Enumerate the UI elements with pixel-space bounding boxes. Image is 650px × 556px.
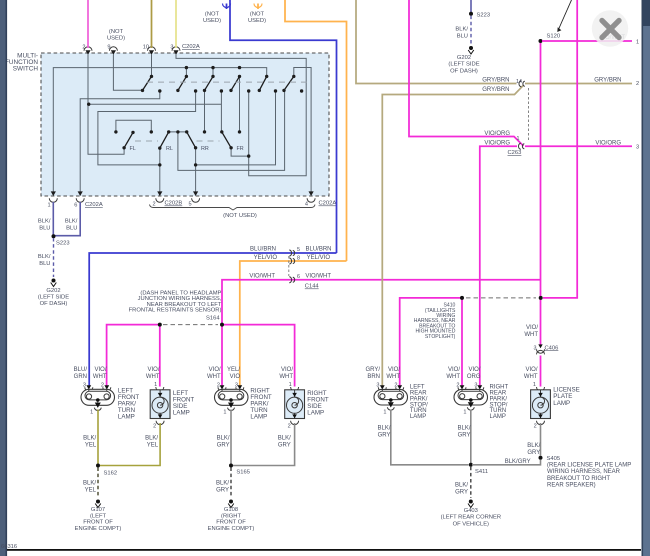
wire GRY/BRN upper [356, 0, 517, 84]
wire BLK/BLU to ground [53, 238, 55, 277]
wire VIO/ORG upper [409, 0, 524, 146]
not-used brace [150, 205, 316, 211]
close button [592, 10, 628, 46]
wire YEL/VIO feed [285, 0, 347, 261]
wire: blade F feed [294, 68, 311, 195]
wire LTYEL (pin 3) [175, 0, 177, 48]
svg-text:VIO/WHT: VIO/WHT [305, 273, 331, 279]
svg-text:C202A: C202A [85, 202, 103, 208]
svg-text:BLK/: BLK/ [278, 436, 291, 442]
wire BLK/GRY right rear [470, 410, 472, 465]
S164 text block [129, 291, 222, 322]
svg-text:(LEFT SIDE: (LEFT SIDE [448, 62, 479, 68]
wire: RL-RR top link [169, 131, 187, 133]
svg-text:BLK/: BLK/ [38, 254, 51, 260]
svg-text:2: 2 [636, 81, 639, 87]
svg-text:1: 1 [90, 409, 93, 415]
wire: pin2 drop [88, 55, 124, 155]
wire VIO/WHT S164 left [107, 325, 160, 387]
wire BLU/BRN left [89, 253, 336, 387]
svg-text:BLU: BLU [457, 34, 468, 40]
wire BLK/GRY license [540, 423, 542, 456]
wire: contact 239 drop [239, 76, 241, 131]
svg-text:REAR SPEAKER): REAR SPEAKER) [547, 483, 596, 489]
top external wires [88, 0, 347, 261]
svg-text:LAMP: LAMP [307, 409, 324, 416]
svg-text:WHT: WHT [386, 374, 400, 380]
svg-text:VIO/: VIO/ [468, 367, 480, 373]
wire: pin6 riser [80, 91, 160, 195]
svg-text:VIO/: VIO/ [526, 325, 538, 331]
svg-text:C202B: C202B [165, 201, 183, 207]
svg-text:VIO/: VIO/ [209, 367, 221, 373]
connector arcs pin 14 [519, 81, 525, 87]
left rear park/stop/turn lamp [374, 383, 428, 421]
svg-text:C202A: C202A [182, 44, 200, 50]
svg-text:ENGINE COMPT): ENGINE COMPT) [75, 526, 122, 532]
ground G107 [96, 500, 100, 504]
svg-text:1: 1 [533, 382, 536, 388]
svg-text:GRY: GRY [458, 432, 471, 438]
wire BLK/GRY side lamp [233, 423, 295, 466]
multi-function switch box [5, 53, 329, 197]
wire VIO/WHT license drop [540, 356, 542, 387]
front lamps [74, 291, 329, 532]
svg-text:1: 1 [636, 40, 639, 46]
wire BLK/BLU pin1 [52, 202, 54, 236]
left BLK/BLU ground column [38, 202, 80, 307]
wire BLK/YEL to G107 [97, 468, 99, 499]
svg-text:BLU/BRN: BLU/BRN [250, 247, 276, 253]
splice S223 [469, 12, 473, 16]
splice S411 [469, 463, 473, 467]
svg-text:GRY/: GRY/ [365, 367, 380, 373]
wire VIO/WHT S410 left [400, 298, 462, 387]
svg-text:BRN: BRN [367, 374, 380, 380]
svg-text:G202: G202 [46, 288, 60, 294]
svg-text:VIO: VIO [230, 374, 241, 380]
wire: RR pin5 drop [195, 148, 197, 195]
connector C406 [538, 344, 542, 348]
wire BLK/GRY to G403 [470, 467, 472, 498]
wire: pin1 bus [53, 68, 266, 195]
splice S164 row [107, 291, 295, 387]
wire VIO/WHT right riser [543, 0, 577, 298]
svg-text:USED): USED) [203, 18, 221, 24]
svg-text:(LEFT: (LEFT [90, 513, 107, 519]
svg-text:9: 9 [107, 45, 110, 51]
svg-text:66316: 66316 [1, 544, 17, 550]
top pin arcs [84, 47, 180, 51]
svg-text:3: 3 [534, 345, 537, 351]
svg-text:GRY/BRN: GRY/BRN [594, 78, 621, 84]
right rear park/stop/turn lamp [454, 383, 509, 421]
left front park/turn lamp [81, 383, 139, 421]
wire VIO/WHT to pin 1 [542, 40, 632, 42]
linkage dashes row2 [135, 140, 158, 142]
svg-text:YEL/VIO: YEL/VIO [307, 255, 331, 261]
svg-text:STOPLIGHT): STOPLIGHT) [425, 334, 456, 340]
svg-text:VIO/ORG: VIO/ORG [595, 140, 621, 146]
splice S120 [539, 39, 543, 43]
splice S410 dashed link [466, 297, 536, 299]
svg-text:VIO/WHT: VIO/WHT [249, 273, 275, 279]
splice S165 [229, 464, 233, 468]
svg-text:BLK/: BLK/ [455, 27, 468, 33]
svg-text:6: 6 [74, 203, 77, 209]
svg-text:WHT: WHT [93, 374, 107, 380]
svg-text:GRY: GRY [216, 487, 229, 493]
svg-text:VIO/ORG: VIO/ORG [484, 131, 510, 137]
wire VIO/WHT S120 drop [540, 43, 542, 345]
svg-text:WHT: WHT [207, 374, 221, 380]
splice S405 [539, 456, 543, 460]
svg-text:C406: C406 [545, 345, 559, 351]
svg-text:2: 2 [534, 424, 537, 430]
svg-text:5: 5 [297, 247, 300, 253]
junction dots row1 [87, 66, 303, 106]
svg-text:S165: S165 [236, 470, 250, 476]
svg-text:G108: G108 [224, 507, 238, 513]
svg-text:GRY: GRY [527, 450, 540, 456]
wire VIO/WHT S410 drop [461, 298, 463, 387]
C144 labels [249, 247, 331, 280]
svg-text:BLU: BLU [66, 226, 77, 232]
svg-text:WIRING HARNESS, NEAR: WIRING HARNESS, NEAR [547, 469, 621, 475]
connector arcs C263 [518, 143, 524, 149]
svg-text:GRY: GRY [378, 432, 391, 438]
svg-text:6: 6 [297, 274, 300, 280]
svg-text:USED): USED) [248, 18, 266, 24]
svg-text:(NOT USED): (NOT USED) [223, 213, 257, 219]
wire VIO/WHT S164 right [222, 323, 295, 387]
svg-text:4: 4 [305, 202, 308, 208]
C144 dashed link [288, 256, 290, 276]
svg-text:S162: S162 [104, 471, 118, 477]
wire GRY/BRN lower [382, 85, 523, 386]
svg-text:WHT: WHT [146, 374, 160, 380]
svg-text:3: 3 [636, 145, 639, 151]
C144 connector arcs [289, 250, 294, 283]
bottom pin labels [47, 202, 308, 209]
wire YEL/VIO left [240, 261, 347, 387]
license plate lamp [531, 382, 580, 429]
svg-text:1: 1 [463, 410, 466, 416]
svg-text:5: 5 [188, 202, 191, 208]
svg-text:BLU: BLU [39, 226, 50, 232]
svg-text:C263: C263 [508, 150, 522, 156]
svg-text:(LEFT REAR CORNER: (LEFT REAR CORNER [441, 515, 501, 521]
wire: contact 195 link [98, 91, 196, 165]
svg-text:SWITCH: SWITCH [13, 66, 39, 73]
svg-text:(NOT: (NOT [109, 29, 124, 35]
svg-text:GRY: GRY [217, 443, 230, 449]
orange not-used stub [248, 4, 266, 25]
svg-text:S164: S164 [206, 315, 220, 321]
svg-text:BLU/BRN: BLU/BRN [305, 247, 331, 253]
switch blade row1 [143, 76, 294, 90]
ground G403 [469, 500, 473, 504]
svg-text:LAMP: LAMP [173, 409, 190, 416]
svg-text:VIO/ORG: VIO/ORG [484, 141, 510, 147]
svg-text:LAMP: LAMP [118, 414, 135, 421]
wire DKYEL (pin 10) [151, 0, 153, 48]
right front park/turn lamp [215, 383, 272, 421]
svg-text:WHT: WHT [446, 374, 460, 380]
svg-text:BLK/GRY: BLK/GRY [505, 459, 531, 465]
svg-text:VIO/: VIO/ [525, 367, 537, 373]
svg-text:WHT: WHT [524, 374, 538, 380]
S164 dashed link [163, 324, 218, 326]
svg-text:VIO/: VIO/ [94, 367, 106, 373]
svg-text:LAMP: LAMP [553, 400, 570, 407]
svg-text:BREAKOUT TO RIGHT: BREAKOUT TO RIGHT [547, 476, 610, 482]
right sidebar [642, 0, 650, 556]
svg-text:BLK/: BLK/ [457, 425, 470, 431]
ground G202 right [469, 46, 473, 50]
svg-text:GRN: GRN [74, 374, 87, 380]
ground G202 [52, 279, 56, 283]
bottom border line [7, 549, 641, 551]
wire BLK/BLU top [470, 0, 472, 12]
splice S223 [52, 234, 56, 238]
svg-text:BLK/: BLK/ [216, 480, 229, 486]
svg-text:RL: RL [166, 146, 173, 152]
S405 text block [547, 463, 631, 489]
svg-text:GRY/BRN: GRY/BRN [482, 87, 509, 93]
wire BLK/BLU pin6 [53, 202, 80, 236]
svg-text:2: 2 [288, 424, 291, 430]
svg-text:S223: S223 [56, 241, 70, 247]
svg-text:2: 2 [153, 424, 156, 430]
rear lamps [365, 367, 631, 528]
bottom pin arcs [49, 198, 315, 202]
svg-text:OF DASH): OF DASH) [450, 68, 478, 74]
svg-text:(NOT: (NOT [250, 12, 265, 18]
svg-text:YEL/VIO: YEL/VIO [254, 255, 278, 261]
svg-text:LAMP: LAMP [250, 414, 267, 421]
wire BLK/YEL side lamp [100, 423, 160, 466]
svg-text:VIO/: VIO/ [281, 367, 293, 373]
ground G108 [229, 500, 233, 504]
connector C144 trio [89, 247, 540, 387]
svg-text:VIO/: VIO/ [388, 367, 400, 373]
svg-text:WHT: WHT [279, 374, 293, 380]
right front side lamp [285, 382, 329, 429]
wire: bus 104 [89, 103, 222, 105]
svg-text:1: 1 [383, 410, 386, 416]
svg-text:BLU/: BLU/ [74, 367, 88, 373]
svg-text:(NOT: (NOT [205, 12, 220, 18]
svg-text:FRONT OF: FRONT OF [216, 520, 246, 526]
svg-text:BLK/: BLK/ [527, 443, 540, 449]
switch blade row2 FL RL RR FR [124, 132, 231, 148]
svg-text:BLK/: BLK/ [377, 425, 390, 431]
svg-text:C144: C144 [305, 284, 320, 290]
wire: pin3 route [176, 55, 306, 176]
svg-text:YEL/: YEL/ [227, 367, 240, 373]
connector C202A top pin labels [82, 45, 173, 51]
svg-text:GRY: GRY [278, 443, 291, 449]
wire BLK/GRY to G108 [230, 468, 232, 499]
pin arrows bottom edge [51, 191, 314, 196]
junction dots row2 [114, 130, 250, 166]
svg-text:WHT: WHT [524, 332, 538, 338]
svg-text:FL: FL [130, 146, 136, 152]
svg-text:1: 1 [517, 136, 520, 142]
wire: FL contact bus [116, 120, 151, 132]
svg-text:S405: S405 [547, 456, 561, 462]
wire: contact 274 drop [196, 91, 276, 165]
svg-text:1: 1 [223, 409, 226, 415]
wire: contact 248 drop [248, 91, 250, 156]
wire BLK/YEL left front park [97, 410, 99, 466]
svg-text:BLK/: BLK/ [83, 480, 96, 486]
wire BLK/GRY right front park [230, 410, 232, 466]
wire VIO/ORG lower [480, 146, 517, 386]
linkage dashes row1 [147, 81, 309, 83]
wire BLK/GRY S405 to S411 [472, 460, 541, 465]
wire GRY/BRN right [525, 83, 632, 85]
svg-text:YEL: YEL [147, 443, 159, 449]
wire: center post route [178, 91, 285, 170]
svg-text:G202: G202 [457, 55, 471, 61]
left sidebar [0, 0, 6, 556]
svg-text:G403: G403 [464, 508, 478, 514]
svg-text:FR: FR [237, 146, 244, 152]
wire: RL pin2 drop [159, 148, 161, 194]
svg-text:GRY: GRY [455, 489, 468, 495]
svg-text:RR: RR [201, 146, 209, 152]
svg-text:BLK/: BLK/ [38, 219, 51, 225]
svg-text:FRONTAL RESTRAINTS SENSOR): FRONTAL RESTRAINTS SENSOR) [129, 308, 222, 314]
wire: contact 204 drop [204, 91, 206, 132]
blue not-used stub [203, 4, 231, 25]
svg-text:(REAR LICENSE PLATE LAMP: (REAR LICENSE PLATE LAMP [547, 463, 631, 469]
svg-text:S120: S120 [547, 34, 561, 40]
svg-text:C202A: C202A [319, 201, 337, 207]
svg-text:8: 8 [297, 255, 300, 261]
svg-text:BLK/: BLK/ [455, 482, 468, 488]
svg-text:ORG: ORG [467, 374, 481, 380]
svg-text:BLU: BLU [39, 261, 50, 267]
svg-text:VIO/: VIO/ [448, 367, 460, 373]
splice S120 leader line [558, 0, 572, 31]
dashed link connectors [528, 88, 530, 140]
left front side lamp [150, 382, 194, 429]
svg-text:S223: S223 [477, 12, 491, 18]
svg-text:2: 2 [152, 202, 155, 208]
svg-text:LAMP: LAMP [410, 414, 426, 420]
svg-text:G107: G107 [91, 507, 105, 513]
svg-text:S411: S411 [475, 469, 488, 475]
svg-text:(RIGHT: (RIGHT [221, 513, 241, 519]
wire BLK/GRY left rear [391, 410, 469, 465]
svg-text:BLK/: BLK/ [65, 219, 78, 225]
S410 text block [414, 303, 456, 340]
svg-text:OF DASH): OF DASH) [40, 301, 68, 307]
right BLK/BLU column [448, 0, 490, 74]
wire BLU/BRN feed [230, 0, 337, 253]
svg-text:FRONT OF: FRONT OF [83, 520, 113, 526]
wire BLK/BLU to ground [470, 16, 472, 45]
wire: bus1 drops [186, 68, 213, 77]
svg-text:ENGINE COMPT): ENGINE COMPT) [208, 526, 255, 532]
wire: pin9 drop [113, 55, 142, 91]
wire: pin10 drop [151, 55, 153, 77]
wire: FR bottom route [231, 148, 249, 156]
svg-text:VIO/: VIO/ [147, 367, 159, 373]
svg-text:BLK/: BLK/ [217, 436, 230, 442]
switch internal wiring [47, 44, 336, 219]
wire VIO/ORG right [525, 145, 632, 147]
svg-text:GRY/BRN: GRY/BRN [482, 78, 509, 84]
svg-text:OF VEHICLE): OF VEHICLE) [453, 521, 489, 527]
svg-text:LAMP: LAMP [490, 414, 506, 420]
right side wiring [356, 0, 639, 387]
svg-text:1: 1 [47, 203, 50, 209]
wire: contact 221 drop [220, 91, 222, 132]
svg-text:USED): USED) [107, 36, 125, 42]
wire VIO (pin 2) [87, 0, 89, 48]
pin arrows top edge [85, 50, 178, 55]
splice S162 [96, 464, 100, 468]
svg-text:YEL: YEL [85, 443, 97, 449]
svg-text:14: 14 [516, 79, 522, 85]
svg-text:YEL: YEL [85, 487, 97, 493]
wire VIO/WHT left [222, 280, 541, 323]
svg-text:(LEFT SIDE: (LEFT SIDE [38, 295, 69, 301]
splice S410 dots [460, 296, 464, 300]
svg-text:BLK/: BLK/ [83, 436, 96, 442]
svg-text:BLK/: BLK/ [145, 436, 158, 442]
